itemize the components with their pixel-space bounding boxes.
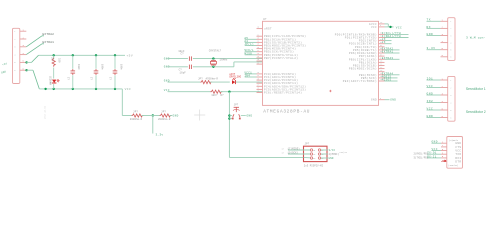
svg-text:EXTRA1: EXTRA1	[382, 51, 394, 54]
MCU left pin row 6	[257, 51, 263, 53]
svg-text:VCC: VCC	[455, 149, 461, 152]
svg-text:SC: SC	[313, 154, 315, 156]
MCU left pin PC3(ADC3/PCINT11)	[257, 82, 263, 84]
wire 3.3V down	[152, 116, 154, 134]
junction dots bottom rail	[44, 88, 46, 90]
svg-text:U?: U?	[263, 18, 267, 21]
node crystal A	[212, 57, 214, 59]
MCU right pin row 15	[379, 77, 385, 79]
JP1 pin 2	[20, 38, 27, 40]
svg-text:IO2: IO2	[427, 100, 434, 103]
J3 pin 4	[441, 102, 448, 104]
svg-text:+5V: +5V	[127, 54, 134, 57]
MCU right pin PD7(AIN1)	[379, 55, 385, 57]
crystal Q1	[212, 59, 214, 61]
ISP pin r3c2	[318, 157, 320, 159]
svg-text:JPDY AE-Rm: JPDY AE-Rm	[44, 105, 47, 119]
MCU right pin row 14	[379, 74, 385, 76]
MCU left pin row 1	[257, 35, 263, 37]
svg-text:uRST: uRST	[264, 28, 272, 31]
svg-text:C?: C?	[66, 77, 69, 80]
wire RESET vertical	[228, 92, 230, 158]
wire EXTRA1 from JP1 pin4	[26, 44, 42, 55]
MCU right pin PD3(OC2B/INT1)	[379, 43, 385, 45]
svg-text:VCC: VCC	[396, 26, 402, 29]
MCU right pin row 12	[379, 68, 385, 70]
J4 pin DTR	[441, 161, 447, 163]
svg-text:C?: C?	[109, 77, 112, 80]
resistor R2	[132, 114, 144, 117]
svg-text:GND: GND	[173, 114, 179, 117]
svg-text:RXI: RXI	[455, 157, 461, 160]
wire net GND	[427, 94, 441, 96]
wire net GND	[427, 117, 441, 119]
wire GND rail	[39, 88, 122, 90]
svg-text:C?: C?	[90, 77, 93, 80]
MCU right pin PD5(OC0B/T1)	[379, 49, 385, 51]
MCU left pin PC0(ADC0/PCINT8)	[257, 73, 263, 75]
wire RX to FTDI	[427, 157, 441, 159]
connector J3 (servo headers)	[448, 76, 455, 121]
svg-text:CTS: CTS	[455, 146, 461, 149]
wire +5V rail	[39, 54, 126, 56]
svg-text:10K?: 10K?	[211, 94, 218, 97]
wire net MISO	[245, 54, 257, 56]
MCU left pin row 9	[257, 60, 263, 62]
resistor R3	[160, 114, 172, 117]
wire net JX	[385, 40, 392, 42]
J2 pin 1	[441, 20, 448, 22]
MCU right pin PD4(XCK/T0)	[379, 46, 385, 48]
svg-text:GND: GND	[390, 99, 396, 102]
svg-text:GND: GND	[247, 115, 253, 118]
svg-text:EXTRA2: EXTRA2	[43, 33, 55, 36]
wire VCC feed	[122, 115, 131, 117]
node RESET	[228, 91, 230, 93]
resistor R5 10K	[210, 90, 222, 93]
capacitor C5 10pF	[188, 65, 190, 69]
J2 pin 2	[441, 27, 448, 29]
svg-text:GND: GND	[432, 141, 438, 144]
node 3.3V	[152, 114, 154, 116]
wire VCC to FTDI	[432, 150, 442, 152]
wire net TX	[427, 20, 441, 22]
MCU right pin PD2(INT0)	[379, 40, 385, 42]
J2 pin 4	[441, 42, 448, 44]
svg-text:RX-I1: RX-I1	[427, 155, 436, 158]
node crystal B	[212, 66, 214, 68]
MCU left pin row 10	[257, 63, 263, 65]
wire net EXTRA1	[385, 52, 400, 54]
wire net EXTRA4	[385, 74, 400, 76]
svg-text:2000hm-R: 2000hm-R	[158, 118, 171, 121]
wire net IO2	[427, 102, 441, 104]
svg-text:4700hm-R: 4700hm-R	[206, 77, 219, 80]
svg-text:29: 29	[257, 26, 259, 29]
wire GND from JP1 pin6	[25, 69, 27, 71]
MCU pin RESET	[257, 28, 263, 30]
connector J4 FTDI	[447, 137, 463, 169]
MCU left pin row 7	[257, 54, 263, 56]
wire RESET into ISP	[304, 156, 311, 158]
wire net IN4	[245, 76, 257, 78]
svg-text:VCC: VCC	[125, 88, 132, 91]
J4 pin TXO	[441, 153, 447, 155]
svg-text:RX: RX	[427, 26, 431, 29]
wire net GND	[427, 35, 441, 37]
JP1 pin 5	[20, 61, 27, 63]
wire net A5	[245, 38, 257, 40]
ISP pin r2c1	[310, 153, 312, 155]
svg-text:3.3V: 3.3V	[427, 47, 436, 50]
MCU left pin row 3	[257, 41, 263, 43]
svg-text:EXTRA1: EXTRA1	[43, 41, 55, 44]
wire net VCC1	[245, 73, 257, 75]
wire MISO to ISP	[288, 149, 310, 151]
MCU left pin PC5(ADC5/SCL/PCINT13)	[257, 88, 263, 90]
svg-text:PE3(ADC7/T3/MOSI): PE3(ADC7/T3/MOSI)	[343, 79, 377, 83]
MCU right pin PD1(PCINT17/TXD)	[379, 37, 385, 39]
svg-text:JP(L): JP(L)	[244, 42, 254, 46]
sheet cross	[194, 114, 205, 116]
svg-text:R?: R?	[221, 94, 225, 97]
MCU left pin row 4	[257, 45, 263, 47]
capacitor C1 100n	[72, 55, 74, 69]
svg-text:MISO5: MISO5	[382, 79, 392, 82]
LED D2	[232, 80, 235, 84]
wire net 3(SDA)/TTH	[385, 37, 409, 39]
IC U1 ATMEGA328PB-AU	[263, 21, 379, 105]
J3 pin 1	[441, 79, 448, 81]
junction dots top rail	[53, 54, 55, 56]
J4 pin GND	[441, 142, 447, 144]
svg-text:JP?: JP?	[198, 77, 203, 80]
MCU left pin row 8	[257, 57, 263, 59]
ISP pin r1c1	[310, 149, 312, 151]
svg-text:16MHz: 16MHz	[220, 59, 228, 62]
svg-text:ServoMotor 1: ServoMotor 1	[466, 87, 486, 91]
svg-text:JP?: JP?	[161, 111, 166, 114]
capacitor C3 100n	[114, 55, 116, 69]
svg-text:JP?: JP?	[305, 142, 310, 145]
ISP pin r3c1	[310, 157, 312, 159]
svg-text:CRYEL20G: CRYEL20G	[229, 75, 241, 78]
MCU right pin PD6(OC0A/AIN0)	[379, 52, 385, 54]
MCU right pin row 13	[379, 71, 385, 73]
J3 pin 3	[441, 94, 448, 96]
svg-text:LED5MM: LED5MM	[48, 76, 51, 85]
wire SCK to ISP	[288, 153, 310, 155]
wire EXTRA2 from JP1 pin3	[26, 36, 42, 47]
svg-text:DTR: DTR	[455, 160, 461, 163]
svg-text:RS: RS	[313, 158, 315, 160]
J3 pin 2	[441, 87, 448, 89]
svg-text:MI: MI	[313, 150, 315, 152]
svg-text:2: 2	[450, 27, 451, 30]
MCU left pin PC6(/RESET/PCINT14)	[257, 92, 263, 94]
svg-text:2: 2	[442, 144, 443, 147]
svg-text:17(MISO): 17(MISO)	[288, 147, 301, 150]
svg-text:2: 2	[442, 85, 443, 88]
J4 pin VCC	[441, 150, 447, 152]
wire GND to FTDI	[432, 142, 442, 144]
svg-text:PB7(PCINT7/XTAL2): PB7(PCINT7/XTAL2)	[264, 56, 298, 60]
svg-text:CRYSTAL?: CRYSTAL?	[209, 50, 222, 53]
svg-text:10pF: 10pF	[180, 72, 187, 75]
svg-text:19(SCK): 19(SCK)	[288, 151, 299, 154]
svg-text:JP?: JP?	[234, 104, 239, 107]
origin cross U1	[329, 90, 331, 92]
svg-text:VCC: VCC	[371, 26, 377, 29]
switch S1 reset	[228, 114, 230, 116]
svg-text:TX: TX	[427, 19, 431, 22]
resistor R4 470ohm	[200, 81, 212, 84]
J4 pin RXI	[441, 157, 447, 159]
ISP pin r1c2	[318, 149, 320, 151]
wire GND from ISP	[321, 157, 328, 159]
svg-text:JP?: JP?	[50, 57, 53, 62]
wire +5V from JP1 pin5	[25, 61, 27, 63]
svg-text:GND: GND	[329, 157, 334, 160]
svg-text:100n: 100n	[77, 64, 80, 70]
MCU left pin PC4(ADC4/SDA/PCINT12)	[257, 85, 263, 87]
connector JP1 (6-pin header)	[13, 28, 20, 83]
svg-text:GND: GND	[427, 92, 434, 95]
MCU right pin PD0(PCINT16/RXD/RX0B)	[379, 33, 385, 35]
connector J2 (3-wire)	[448, 18, 455, 61]
MCU right pin row 11	[379, 65, 385, 67]
J3 pin 6	[441, 117, 448, 119]
MCU right pin row 16	[379, 80, 385, 82]
MCU right pin row 10	[379, 61, 385, 63]
J2 pin 3	[441, 35, 448, 37]
resistor R1 (power LED series 330)	[53, 55, 55, 58]
svg-text:GND: GND	[427, 115, 434, 118]
MCU pin AVCC	[379, 23, 385, 25]
ISP pin r2c2	[318, 153, 320, 155]
connector JP2 ISP 2x3	[304, 146, 328, 161]
wire GND stub	[385, 99, 390, 101]
wire VCC from ISP	[321, 149, 328, 151]
J2 pin 5	[441, 49, 448, 51]
svg-text:2: 2	[450, 86, 451, 89]
wire net IO1	[427, 79, 441, 81]
MCU left pin row 2	[257, 38, 263, 40]
capacitor C4 10pF	[188, 56, 190, 60]
svg-text:IN4: IN4	[244, 75, 250, 78]
svg-text:PB3(MO: PB3(MO	[340, 151, 348, 154]
wire RESET to ISP	[229, 156, 303, 158]
LED D1 power	[52, 80, 56, 83]
MCU left pin row 5	[257, 48, 263, 50]
svg-text:2000hm-R: 2000hm-R	[130, 118, 143, 121]
svg-text:TX-O1: TX-O1	[427, 152, 436, 155]
svg-text:4(MOSI): 4(MOSI)	[329, 153, 340, 156]
wire net VCC	[427, 109, 441, 111]
svg-text:ServoMotor 2: ServoMotor 2	[466, 110, 486, 114]
MCU pin GND	[379, 99, 385, 101]
MCU pin VCC	[379, 26, 385, 28]
svg-text:3 W_M con-: 3 W_M con-	[466, 37, 486, 40]
JP1 pin 6	[20, 69, 27, 71]
wire net RX	[427, 27, 441, 29]
wire net SCK/L	[245, 51, 257, 53]
svg-text:VCC: VCC	[427, 85, 434, 88]
wire net VCC	[427, 87, 441, 89]
svg-text:C?: C?	[181, 53, 185, 56]
svg-text:3/CC: 3/CC	[329, 149, 336, 152]
svg-text:PB3(MOSI/OC2A): PB3(MOSI/OC2A)	[349, 67, 377, 71]
wire net 3(SCL)/TTH	[385, 33, 409, 35]
J2 pin 6	[441, 56, 448, 58]
svg-text:3_3v: 3_3v	[156, 134, 164, 137]
MCU left pin PC1(ADC1/PCINT9)	[257, 76, 263, 78]
wire XTAL2 step	[233, 62, 235, 67]
wire VCC drop	[121, 89, 123, 116]
svg-text:100n: 100n	[100, 64, 103, 70]
svg-text:TXO: TXO	[455, 153, 461, 156]
svg-text:(3V3/5V): (3V3/5V)	[448, 164, 458, 167]
wire net JP(L)	[245, 45, 257, 47]
svg-text:JP?: JP?	[133, 111, 138, 114]
svg-text:VCC: VCC	[427, 107, 434, 110]
wire MOSI from ISP	[321, 153, 328, 155]
wire net A4	[245, 41, 257, 43]
svg-text:VCC: VCC	[432, 148, 438, 151]
svg-text:PC6(/RESET/PCINT14): PC6(/RESET/PCINT14)	[264, 91, 302, 95]
svg-text:MISO: MISO	[244, 52, 252, 55]
capacitor C2 100n	[95, 55, 97, 69]
wire AVCC/VCC tie	[385, 23, 389, 25]
wire net MOSI5	[385, 77, 398, 79]
J3 pin 5	[441, 109, 448, 111]
svg-text:100n: 100n	[119, 64, 122, 70]
svg-text:IO1: IO1	[427, 77, 434, 80]
wire net EXTRA2	[385, 49, 400, 51]
svg-text:2x3 PIGPIV-MI: 2x3 PIGPIV-MI	[304, 164, 324, 167]
svg-text:29: 29	[257, 90, 259, 93]
J4 pin CTS	[441, 146, 447, 148]
svg-text:GND: GND	[427, 33, 434, 36]
JP1 pin 3	[20, 46, 27, 48]
wire net EXTRA3	[385, 58, 400, 60]
JP1 pin 4	[20, 54, 27, 56]
JP1 pin 1	[20, 30, 27, 32]
MCU left pin PC2(ADC2/PCINT10)	[257, 79, 263, 81]
wire net JX	[385, 43, 392, 45]
svg-text:JX: JX	[382, 41, 386, 44]
svg-text:GND: GND	[455, 142, 461, 145]
svg-text:ATMEGA328PB-AU: ATMEGA328PB-AU	[263, 110, 310, 115]
MCU right pin row 9	[379, 58, 385, 60]
wire net 3.3V	[427, 49, 441, 51]
svg-text:330: 330	[58, 58, 61, 63]
wire TX to FTDI	[427, 153, 441, 155]
wire net MISO5	[385, 80, 398, 82]
svg-text:GND: GND	[371, 99, 377, 102]
svg-text:2: 2	[442, 26, 443, 29]
svg-text:EXTRA3: EXTRA3	[382, 57, 394, 60]
DTR arrow	[443, 160, 446, 162]
